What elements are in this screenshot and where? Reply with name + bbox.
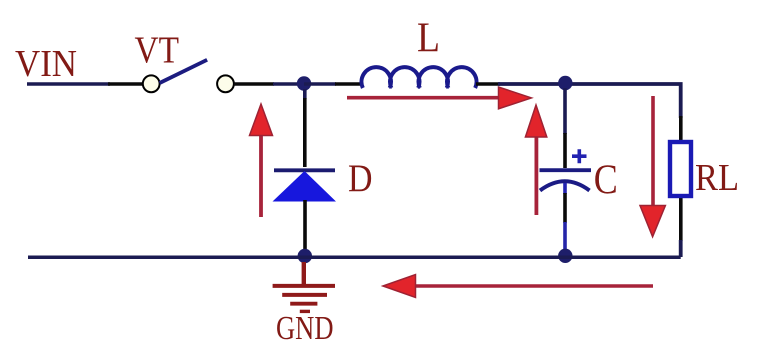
node C (bottom of capacitor branch) <box>558 249 572 263</box>
current arrow: return current left along bottom <box>383 275 653 298</box>
node B (top of capacitor branch) <box>558 76 572 90</box>
ground GND bar 4 <box>300 310 310 313</box>
svg-text:VIN: VIN <box>15 43 77 85</box>
wire: switch to node A (black part) <box>234 82 274 86</box>
svg-text:L: L <box>417 16 440 62</box>
wire: right branch below resistor (black) <box>679 197 683 241</box>
wire: bottom rail (navy) <box>28 256 681 260</box>
node A (junction switch / diode / inductor) <box>297 76 311 90</box>
switch VT lever arm <box>160 60 208 83</box>
current arrow: capacitor charging current up <box>525 105 546 215</box>
capacitor C bottom curved plate <box>540 181 590 190</box>
wire: node A to inductor (black part) <box>335 82 362 86</box>
diode D triangle <box>273 171 337 202</box>
ground GND bar 1 <box>273 284 335 288</box>
current arrow: inductor current right <box>347 87 532 109</box>
wire: right branch above resistor (black) <box>679 116 683 142</box>
capacitor C plus sign <box>572 149 587 163</box>
switch VT right contact circle <box>217 75 234 92</box>
capacitor C top plate <box>540 168 592 172</box>
wire: capacitor to bottom rail (blue part) <box>563 222 567 250</box>
wire: capacitor to bottom rail (black part) <box>563 193 567 223</box>
wire: node B down to capacitor plate (black part) <box>563 133 567 168</box>
wire: node B down (navy part) <box>563 88 567 134</box>
wire: VIN input lead (navy) <box>27 82 110 86</box>
svg-text:VT: VT <box>135 30 180 72</box>
wire: diode to bottom rail (black) <box>303 200 307 251</box>
svg-text:GND: GND <box>276 310 334 347</box>
svg-text:RL: RL <box>695 157 739 199</box>
wire: node A to inductor (navy part) <box>304 82 336 86</box>
wire: switch to node A (navy part) <box>273 82 300 86</box>
node D (ground node on bottom rail) <box>298 249 312 263</box>
ground GND stem <box>302 262 306 284</box>
current arrow: load current down through RL <box>640 96 665 237</box>
resistor RL body <box>670 142 691 196</box>
wire: into switch contact (black) <box>108 82 143 86</box>
wire: diode branch from node A (navy stub) <box>303 89 307 99</box>
svg-text:D: D <box>348 157 373 200</box>
wire: diode branch down (black) <box>303 98 307 167</box>
svg-text:C: C <box>594 158 618 204</box>
inductor L <box>361 67 476 88</box>
ground GND bar 2 <box>282 293 327 297</box>
wire: inductor out (black part) <box>476 82 500 86</box>
switch VT left contact circle <box>143 75 160 92</box>
wire: capacitor bottom stub (blue) <box>563 183 567 194</box>
diode D cathode bar <box>274 168 335 172</box>
current arrow: diode freewheel current up <box>250 104 273 217</box>
ground GND bar 3 <box>290 302 317 306</box>
wire: top rail to top-right corner (navy) <box>498 84 681 118</box>
wire: right branch bottom corner (navy) <box>679 240 683 257</box>
